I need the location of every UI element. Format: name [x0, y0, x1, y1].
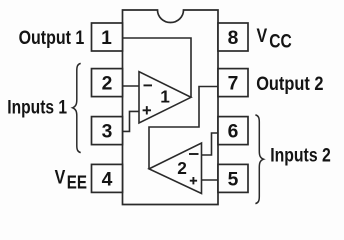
- pin 2 box: [92, 69, 123, 97]
- wire: pin 6 to U2 inverting input: [202, 133, 219, 155]
- svg-text:4: 4: [102, 169, 113, 190]
- svg-text:2: 2: [102, 74, 113, 95]
- pin 4 box: [92, 164, 123, 192]
- pin 1 box: [92, 23, 123, 51]
- label Output 1: [19, 27, 85, 49]
- label Output 2: [256, 73, 323, 95]
- label VCC (pin 8): [257, 25, 293, 52]
- op-amp U2 triangle: [149, 143, 202, 194]
- svg-text:1: 1: [101, 28, 112, 49]
- wire: pin 5 to U2 non-inverting input: [202, 179, 219, 181]
- wire: pin 3 to U1 non-inverting input: [122, 111, 139, 131]
- label Inputs 1: [7, 96, 67, 118]
- svg-text:2: 2: [177, 158, 187, 178]
- op-amp U1 plus sign: [143, 106, 151, 114]
- svg-text:EE: EE: [67, 172, 87, 193]
- svg-text:Output 2: Output 2: [256, 73, 323, 95]
- svg-text:V: V: [55, 166, 66, 188]
- pin 5 box: [218, 164, 248, 192]
- op-amp U1 triangle: [139, 72, 191, 123]
- label VEE (pin 4): [55, 166, 87, 193]
- brace for Inputs 2 (pins 6-5): [255, 115, 263, 204]
- op-amp U1 output wire: pin 1 to U1 apex: [123, 38, 192, 97]
- IC body DIP-8 outline with notch: [123, 10, 219, 205]
- op-amp U2 minus sign: [189, 153, 199, 155]
- op-amp U1 minus sign: [144, 84, 153, 86]
- wire: pin 2 to U1 inverting input: [123, 85, 140, 87]
- svg-text:8: 8: [228, 28, 239, 49]
- op-amp U2 plus sign: [190, 177, 197, 184]
- pin 7 box: [218, 69, 248, 97]
- label Inputs 2: [270, 144, 331, 166]
- svg-text:V: V: [257, 25, 268, 47]
- svg-text:5: 5: [228, 169, 239, 190]
- pin 3 box: [92, 117, 123, 145]
- brace for Inputs 1 (pins 2-3): [73, 63, 81, 152]
- svg-text:1: 1: [160, 86, 170, 106]
- svg-text:Output 1: Output 1: [19, 27, 85, 49]
- svg-text:3: 3: [102, 122, 113, 143]
- svg-text:Inputs 1: Inputs 1: [7, 96, 67, 118]
- pin 6 box: [218, 117, 248, 145]
- svg-text:6: 6: [228, 122, 239, 143]
- wire: pin 7 to U2 output apex: [149, 87, 218, 169]
- svg-text:Inputs 2: Inputs 2: [270, 144, 331, 166]
- svg-text:7: 7: [228, 74, 239, 95]
- pin 8 box: [218, 23, 248, 51]
- svg-text:CC: CC: [269, 30, 292, 52]
